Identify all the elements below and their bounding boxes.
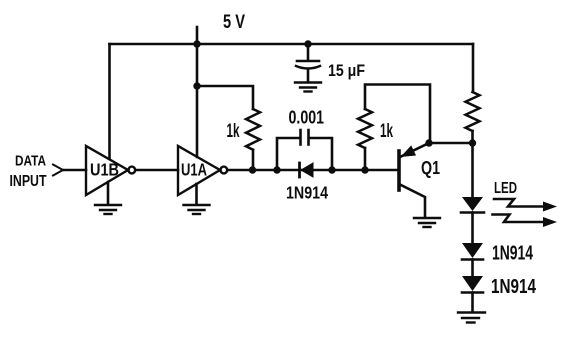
junction dot LED chain top	[469, 139, 476, 146]
wire R2 bottom lead	[364, 148, 367, 170]
ground under Q1	[414, 218, 440, 227]
svg-text:1k: 1k	[227, 121, 240, 142]
svg-text:1N914: 1N914	[286, 183, 328, 203]
junction dot rail/C1	[304, 40, 311, 47]
wire U1A power vertical	[196, 44, 199, 157]
ground stub U1B	[107, 182, 110, 204]
svg-text:Q1: Q1	[421, 158, 440, 178]
wire D4 to ground	[471, 293, 474, 313]
resistor R2 1k	[358, 109, 372, 148]
wire input to U1B	[63, 169, 86, 172]
resistor R1 1k	[246, 109, 260, 150]
LED light arrow lower	[493, 215, 558, 228]
ground bottom right	[458, 313, 485, 323]
transistor Q1	[399, 143, 429, 217]
resistor R3	[466, 92, 480, 131]
ground stub U1A	[195, 184, 198, 204]
wire node to LED	[471, 143, 474, 197]
svg-text:INPUT: INPUT	[10, 173, 47, 190]
wire main node line	[227, 169, 397, 172]
wire rail to R3	[472, 44, 475, 92]
svg-text:LED: LED	[494, 180, 517, 197]
op-amp U1B inverter	[86, 146, 135, 195]
ground under U1B	[95, 205, 121, 214]
wire R2 top loop to emitter node	[365, 85, 430, 144]
junction dot cap bracket right	[328, 166, 335, 173]
svg-text:U1B: U1B	[90, 160, 119, 180]
svg-text:15 μF: 15 μF	[328, 62, 365, 80]
junction dot emitter node	[425, 139, 432, 146]
diode D4 1N914	[462, 276, 483, 293]
wire U1B out to U1A	[135, 169, 178, 172]
wire top 5V rail	[110, 43, 474, 46]
svg-text:U1A: U1A	[181, 160, 207, 180]
svg-text:1N914: 1N914	[492, 243, 534, 265]
svg-text:1N914: 1N914	[491, 275, 536, 298]
wire emitter node to LED chain	[429, 142, 472, 145]
node DATA INPUT arrow	[53, 165, 63, 176]
wire LED to D3	[471, 213, 474, 244]
diode D3 1N914	[462, 243, 483, 260]
wire D3 to D4	[471, 260, 474, 277]
junction dot R2/main	[361, 166, 368, 173]
wire R1 bottom lead	[252, 150, 255, 170]
svg-text:0.001: 0.001	[289, 108, 325, 128]
junction dot rail/5V	[193, 40, 200, 47]
junction dot R1/main	[249, 166, 256, 173]
op-amp U1A inverter	[178, 146, 227, 195]
wire branch to R1	[197, 86, 253, 109]
ground under U1A	[184, 205, 210, 214]
svg-text:5 V: 5 V	[223, 12, 245, 33]
wire R3 to node	[471, 131, 474, 143]
junction dot cap bracket left	[273, 166, 280, 173]
capacitor C1 15uF	[296, 44, 320, 82]
svg-text:DATA: DATA	[15, 153, 46, 170]
junction dot mid-branch	[193, 82, 200, 89]
ground under C1	[295, 83, 321, 92]
node 5V stub	[196, 27, 199, 44]
wire left vertical rail to U1B power	[108, 44, 111, 158]
diode D1 1N914	[300, 163, 314, 177]
LED light arrow upper	[494, 199, 557, 212]
capacitor C2 0.001 bypass bracket	[277, 130, 332, 170]
LED D2	[461, 197, 484, 213]
svg-text:1k: 1k	[380, 121, 393, 142]
